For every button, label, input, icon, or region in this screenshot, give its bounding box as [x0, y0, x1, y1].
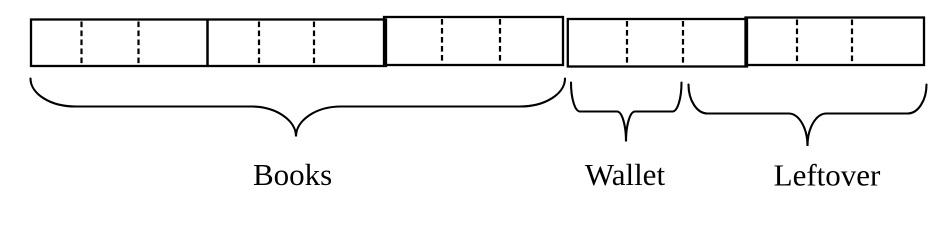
bar rectangle 4 (Wallet section) — [568, 19, 747, 67]
svg-text:Wallet: Wallet — [585, 157, 666, 192]
dashed divider b — [137, 22, 139, 66]
dashed divider j — [851, 20, 853, 65]
bar rectangle 3 — [384, 17, 563, 65]
dashed divider c — [258, 22, 260, 66]
dashed divider h — [682, 21, 684, 66]
dashed divider f — [499, 19, 501, 64]
curly brace Leftover — [689, 85, 927, 147]
svg-text:Leftover: Leftover — [774, 157, 881, 192]
dashed divider i — [796, 20, 798, 65]
dashed divider e — [441, 19, 443, 64]
dashed divider g — [626, 21, 628, 66]
dashed divider d — [313, 22, 315, 66]
curly brace Books — [31, 79, 566, 137]
bar rectangle 1+2 (Books section, left) — [31, 20, 386, 67]
dashed divider a — [80, 22, 82, 66]
bar rectangle 5 (Leftover section) — [746, 18, 925, 66]
curly brace Wallet — [571, 83, 682, 142]
solid divider between unit-block 1 and 2 — [206, 20, 209, 67]
svg-text:Books: Books — [253, 157, 332, 192]
